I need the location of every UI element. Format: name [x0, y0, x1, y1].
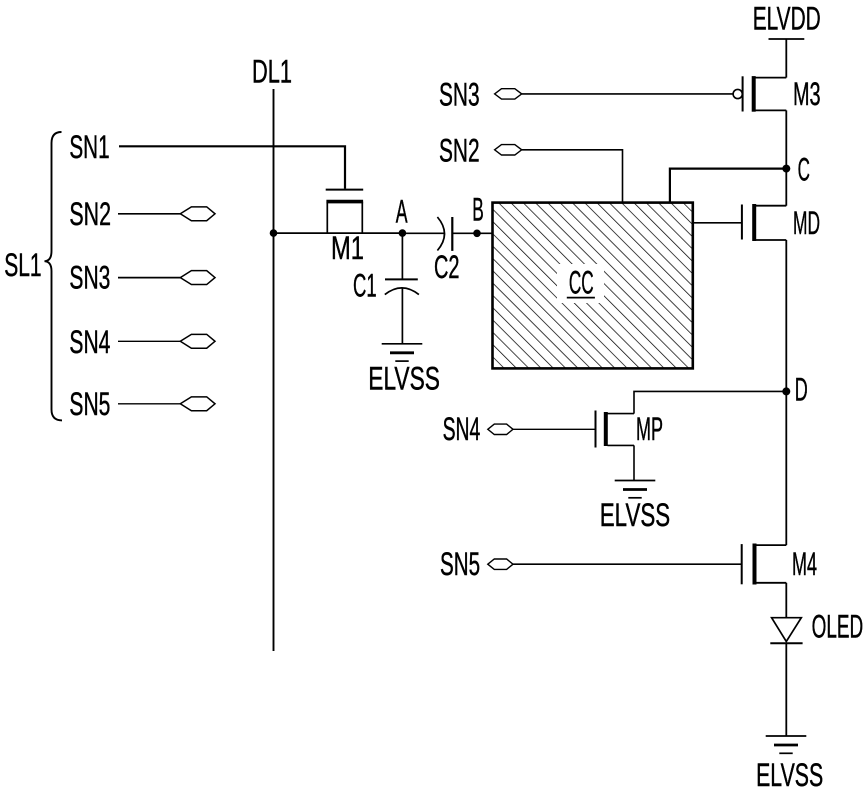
svg-text:CC: CC — [569, 264, 594, 300]
label CC underline — [567, 297, 595, 299]
wire M3 to MD (through node C) — [785, 110, 787, 205]
transistor M1 — [326, 190, 364, 234]
terminal SN2 (right) — [495, 145, 522, 155]
junction DL1/M1 — [270, 229, 278, 237]
wire SN3 to M3 gate — [522, 93, 733, 95]
wire SN4 stub — [118, 340, 180, 342]
wire SN5 stub — [118, 403, 180, 405]
capacitor C2 — [402, 217, 492, 251]
svg-text:SN2: SN2 — [439, 133, 480, 169]
wire ELVDD to M3 — [785, 39, 787, 78]
svg-text:SL1: SL1 — [4, 247, 41, 283]
capacitor C1 — [385, 233, 419, 344]
svg-text:M4: M4 — [792, 546, 817, 582]
svg-text:C1: C1 — [353, 268, 377, 304]
wire node D to MP drain — [634, 391, 786, 413]
transistor MP — [596, 411, 635, 448]
node B — [473, 230, 481, 238]
svg-text:A: A — [396, 193, 408, 229]
node C — [782, 165, 790, 173]
diode OLED — [770, 618, 802, 644]
wire SN1 to M1 gate — [119, 146, 345, 189]
ground ELVSS (MP) — [615, 481, 656, 498]
wire SN3 stub — [118, 277, 180, 279]
svg-text:ELVSS: ELVSS — [756, 757, 823, 793]
svg-text:SN1: SN1 — [69, 129, 109, 165]
svg-text:SN3: SN3 — [69, 260, 110, 296]
node A — [399, 229, 407, 237]
wire MD to M4 (through node D) — [785, 240, 787, 545]
svg-text:ELVSS: ELVSS — [600, 497, 670, 533]
block CC (hatched) — [493, 203, 693, 369]
svg-text:OLED: OLED — [812, 609, 864, 645]
terminal SN3 — [180, 271, 215, 285]
node D — [782, 387, 790, 395]
svg-text:ELVDD: ELVDD — [753, 0, 821, 36]
wire M4 to OLED — [785, 583, 787, 618]
ground ELVSS (C1) — [382, 344, 423, 361]
svg-text:DL1: DL1 — [252, 54, 292, 90]
wire SN2 to CC — [522, 150, 623, 203]
svg-text:SN4: SN4 — [443, 411, 481, 447]
svg-text:MD: MD — [793, 205, 820, 241]
transistor M3 — [733, 76, 786, 112]
bus line DL1 — [273, 89, 275, 651]
wire DL1 to node A — [274, 232, 403, 234]
svg-text:SN5: SN5 — [440, 546, 480, 582]
svg-text:SN2: SN2 — [69, 196, 111, 232]
terminal SN4 (right) — [488, 424, 513, 434]
wire CC to MD gate — [693, 222, 741, 224]
power terminal ELVDD bar — [769, 38, 805, 40]
terminal SN3 (right) — [495, 89, 522, 99]
svg-text:D: D — [795, 372, 808, 408]
wire SN5 to M4 gate — [513, 563, 741, 565]
wire OLED to ground — [785, 643, 787, 736]
svg-text:ELVSS: ELVSS — [368, 360, 440, 396]
svg-text:C: C — [798, 152, 810, 188]
svg-text:M1: M1 — [331, 230, 364, 266]
wire SN2 stub — [118, 213, 180, 215]
svg-text:B: B — [472, 191, 484, 227]
terminal SN5 — [180, 397, 215, 411]
wire node C to CC top — [670, 169, 786, 203]
svg-text:SN5: SN5 — [69, 386, 110, 422]
terminal SN2 — [180, 207, 215, 221]
transistor MD — [742, 204, 786, 241]
transistor M4 — [742, 544, 787, 585]
wire MP source to ground — [633, 445, 635, 480]
terminal SN5 (right) — [488, 559, 513, 569]
ground ELVSS (OLED) — [766, 736, 807, 753]
svg-text:C2: C2 — [434, 249, 460, 285]
svg-text:MP: MP — [636, 411, 663, 447]
svg-text:SN4: SN4 — [69, 324, 110, 360]
svg-text:SN3: SN3 — [439, 76, 480, 112]
terminal SN4 — [180, 334, 215, 348]
wire SN4 to MP gate — [513, 428, 595, 430]
bracket SL1 — [45, 132, 63, 420]
svg-text:M3: M3 — [793, 76, 821, 112]
